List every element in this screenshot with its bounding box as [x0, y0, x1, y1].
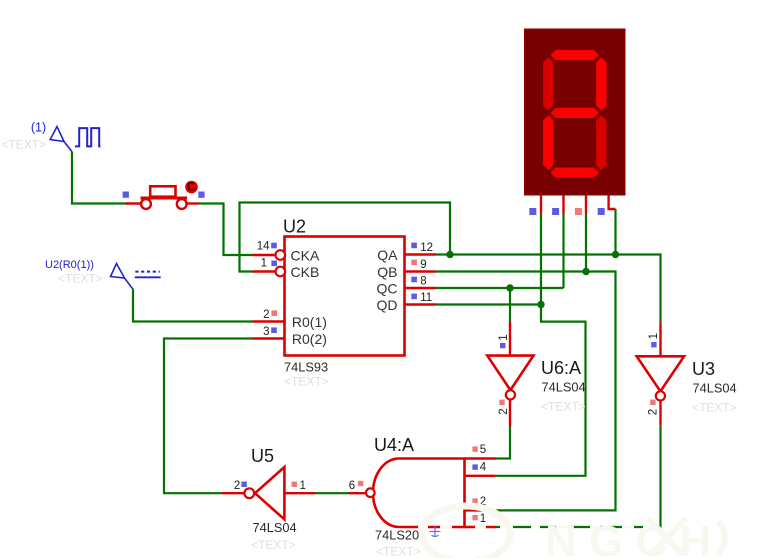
U6:A pin 2 state square [499, 400, 504, 405]
nand gate U4:A 74LS20 body [373, 458, 465, 527]
U4:A placeholder text [376, 545, 421, 558]
U2 pin 9 state square [411, 260, 417, 266]
svg-text:N G C H: N G C H [545, 517, 711, 558]
7-segment display body [525, 29, 626, 195]
svg-text:U2: U2 [283, 217, 306, 237]
display segment F upper-left (unlit) [543, 57, 554, 112]
pin stub display 1 [540, 195, 542, 213]
svg-text:(1): (1) [31, 121, 46, 135]
svg-text:4: 4 [480, 462, 487, 474]
pin stub button left [125, 202, 142, 204]
U3 pin number 1 [648, 333, 660, 339]
svg-text:<TEXT>: <TEXT> [251, 538, 296, 552]
U5 pin number 1 [300, 480, 306, 492]
clock generator flag [50, 127, 72, 153]
wire R0(1) source to U2 [133, 290, 253, 322]
svg-text:74LS04: 74LS04 [253, 520, 297, 535]
U6:A placeholder text [541, 400, 586, 414]
U4:A pin 1 state square [472, 515, 477, 520]
watermark [422, 506, 725, 558]
pin stub U4 pin 1 [465, 526, 496, 528]
svg-text:<TEXT>: <TEXT> [376, 545, 421, 558]
svg-text:<TEXT>: <TEXT> [284, 375, 329, 389]
U2 pin name QB [377, 264, 397, 280]
svg-text:U6:A: U6:A [541, 358, 581, 378]
svg-text:<TEXT>: <TEXT> [541, 400, 586, 414]
pin stub U5 output [222, 492, 244, 494]
svg-text:1: 1 [261, 258, 267, 270]
svg-text:2: 2 [648, 409, 660, 415]
U4:A pin 5 state square [472, 446, 477, 451]
wire U5 output to R0(2) [164, 339, 253, 494]
U4:A reference label [374, 435, 414, 455]
display pin state square 1 [529, 208, 536, 215]
pin stub U3 input [659, 322, 661, 356]
svg-text:2: 2 [234, 480, 240, 492]
inverter U5 triangle [255, 467, 284, 519]
U4:A value label 74LS20 [375, 528, 419, 543]
U2 value label 74LS93 [284, 360, 328, 375]
clock generator placeholder text [1, 138, 46, 152]
button SW cap [150, 186, 175, 196]
U6:A reference label [541, 358, 581, 378]
display segment G middle (lit) [550, 107, 600, 118]
U2 pin name R0(2) [292, 331, 327, 347]
svg-text:74LS04: 74LS04 [542, 380, 586, 395]
U2 pin 1 state square [271, 261, 277, 267]
svg-text:2: 2 [263, 309, 269, 321]
button SW right terminal [177, 199, 187, 209]
pin stub display 3 [585, 195, 587, 213]
inverter U3 triangle [637, 356, 684, 391]
svg-text:QD: QD [377, 297, 398, 313]
U4:A pin 4 state square [472, 464, 477, 469]
U2 pin number 8 [420, 276, 426, 288]
junction node QB-display [582, 268, 589, 275]
junction node QD-display [537, 301, 544, 308]
button SW actuator marker [185, 181, 198, 194]
pin stub U5 input [284, 492, 315, 494]
U5 placeholder text [251, 538, 296, 552]
wire display pin4 to QA [614, 209, 616, 255]
logic state level symbol [135, 272, 161, 278]
svg-text:<TEXT>: <TEXT> [1, 138, 46, 152]
svg-text:1: 1 [498, 334, 510, 340]
pin stub U4 pin 2 [465, 509, 496, 511]
display pin state square 3 [575, 208, 582, 215]
pin stub U6 input [509, 322, 511, 356]
button SW contact bar [141, 197, 188, 200]
svg-text:U2(R0(1)): U2(R0(1)) [45, 259, 94, 271]
U2 pin 14 state square [271, 243, 277, 249]
junction node QA-CKB loop [446, 251, 453, 258]
svg-text:U4:A: U4:A [374, 435, 414, 455]
button state square left [123, 192, 129, 198]
wire button to CKA [199, 204, 253, 256]
svg-text:14: 14 [257, 241, 270, 253]
U5 output bubble [244, 488, 254, 498]
pin stub U4 output pin 6 [349, 492, 367, 494]
pin stub U2 CKB [253, 270, 277, 272]
svg-text:QC: QC [377, 280, 398, 296]
U2 pin name QC [377, 280, 398, 296]
svg-text:3: 3 [263, 326, 269, 338]
svg-text:11: 11 [420, 292, 432, 304]
wire display pin2 to QC [562, 213, 564, 288]
U4:A pin number 6 [349, 480, 355, 492]
U2 CKB inversion bubble [276, 267, 286, 277]
U2 pin name QD [377, 297, 398, 313]
clock waveform symbol [75, 128, 101, 146]
svg-text:2: 2 [498, 408, 510, 414]
svg-text:1: 1 [648, 333, 660, 339]
button SW left terminal [141, 199, 151, 209]
U2 pin number 12 [420, 242, 433, 254]
display pin state square 4 [598, 208, 605, 215]
svg-text:QB: QB [377, 264, 397, 280]
U3 pin 1 state square [651, 342, 656, 347]
pin stub U2 QB [405, 270, 436, 272]
svg-text:<TEXT>: <TEXT> [58, 272, 103, 286]
display segment D bottom (lit) [550, 167, 600, 178]
U2 pin 3 state square [271, 327, 277, 333]
svg-text:74LS20: 74LS20 [375, 528, 419, 543]
svg-text:5: 5 [480, 444, 486, 456]
U4:A pin 2 state square [472, 498, 477, 503]
U2 pin number 11 [420, 292, 432, 304]
wire clock to button [72, 152, 125, 204]
origin cursor marker [430, 526, 441, 537]
U2 pin 8 state square [411, 277, 417, 283]
svg-text:U5: U5 [251, 446, 274, 466]
U4:A pin number 4 [480, 462, 487, 474]
U5 pin number 2 [234, 480, 240, 492]
display segment E lower-left (lit) [543, 115, 554, 171]
button state square right [198, 192, 204, 198]
svg-text:1: 1 [300, 480, 306, 492]
svg-text:8: 8 [420, 276, 426, 288]
U3 reference label [692, 359, 715, 379]
U2 pin number 1 [261, 258, 267, 270]
U3 placeholder text [692, 401, 737, 415]
U2 placeholder text [284, 375, 329, 389]
svg-text:CKA: CKA [291, 247, 320, 263]
display segment C lower-right (unlit) [596, 115, 607, 171]
svg-text:9: 9 [420, 259, 426, 271]
wire U5 input to U4 output [315, 492, 349, 494]
U2 CKA inversion bubble [276, 250, 286, 260]
wire U3 output to U4 pin 1 [495, 426, 661, 527]
wire QD net [436, 303, 542, 305]
pin stub U2 QD [405, 303, 436, 305]
U5 pin 2 state square [241, 482, 246, 487]
pin stub U4 pin 5 [465, 457, 496, 459]
U2 pin number 2 [263, 309, 269, 321]
display segment A top (lit) [550, 49, 600, 60]
pin stub U2 QA [405, 253, 436, 255]
svg-text:74LS04: 74LS04 [693, 381, 737, 396]
U4:A pin number 1 [480, 513, 486, 525]
U2 pin name CKA [291, 247, 320, 263]
U5 pin 1 state square [292, 482, 297, 487]
pin stub U6 output [509, 400, 511, 427]
pin stub U3 output [659, 401, 661, 426]
clock generator label (1) [31, 121, 46, 135]
wire display pin1 to QD [540, 213, 542, 305]
U6:A pin number 1 [498, 334, 510, 340]
U2 pin name R0(1) [292, 314, 327, 330]
wire U6 output to U4 pin 5 [496, 427, 511, 459]
pin stub display 2 [562, 195, 564, 213]
inverter U6:A triangle [487, 356, 533, 391]
logic state source flag [111, 264, 134, 291]
junction node QC-U6 [506, 284, 513, 291]
wire QC net [436, 287, 564, 289]
U2 pin number 14 [257, 241, 270, 253]
svg-text:R0(1): R0(1) [292, 314, 327, 330]
pin stub display 4 [609, 195, 616, 209]
U4:A pin number 5 [480, 444, 486, 456]
U6:A pin 1 state square [500, 343, 505, 348]
wire QC branch to U6 input [509, 288, 511, 322]
pin stub button right [186, 202, 198, 204]
pin stub U2 R0(1) [253, 320, 285, 322]
svg-text:CKB: CKB [291, 264, 320, 280]
U3 value label 74LS04 [693, 381, 737, 396]
pin stub U2 CKA [253, 254, 277, 256]
U4:A pin 6 state square [358, 481, 363, 486]
U5 reference label [251, 446, 274, 466]
U4:A pin number 2 [480, 496, 486, 508]
U3 pin number 2 [648, 409, 660, 415]
wire QA net [436, 255, 661, 323]
svg-text:12: 12 [420, 242, 433, 254]
U2 pin number 3 [263, 326, 269, 338]
U6:A pin number 2 [498, 408, 510, 414]
U2 pin name CKB [291, 264, 320, 280]
logic state source label U2(R0(1)) [45, 259, 94, 271]
display segment B upper-right (lit) [596, 57, 607, 112]
junction node QA-display [612, 251, 619, 258]
svg-text:1: 1 [480, 513, 486, 525]
U2 pin 11 state square [411, 294, 417, 300]
wire QA feedback loop to CKB [240, 203, 451, 272]
U5 value label 74LS04 [253, 520, 297, 535]
U3 pin 2 state square [650, 400, 655, 405]
svg-text:6: 6 [349, 480, 355, 492]
svg-text:QA: QA [377, 247, 398, 263]
U3 output bubble [656, 391, 665, 400]
counter U2 74LS93 body [285, 237, 405, 356]
logic state placeholder text [58, 272, 103, 286]
U2 reference label [283, 217, 306, 237]
pin stub U4 pin 4 [465, 475, 496, 477]
U2 pin name QA [377, 247, 398, 263]
U2 pin 2 state square [271, 310, 277, 316]
svg-text:<TEXT>: <TEXT> [692, 401, 737, 415]
wire QB net [436, 272, 616, 511]
pin stub U2 R0(2) [253, 337, 285, 339]
svg-text:R0(2): R0(2) [292, 331, 327, 347]
pin stub U2 QC [405, 287, 436, 289]
svg-text:74LS93: 74LS93 [284, 360, 328, 375]
U6:A output bubble [506, 390, 515, 399]
wire display pin3 to QB [585, 213, 587, 272]
U6:A value label 74LS04 [542, 380, 586, 395]
display pin state square 2 [552, 208, 559, 215]
watermark gaps over bottom wire [418, 525, 651, 528]
U2 pin 12 state square [411, 243, 417, 249]
svg-text:U3: U3 [692, 359, 715, 379]
U2 pin number 9 [420, 259, 426, 271]
wire QD branch to U4 pin 4 [495, 305, 586, 476]
U4:A output bubble [366, 488, 375, 497]
